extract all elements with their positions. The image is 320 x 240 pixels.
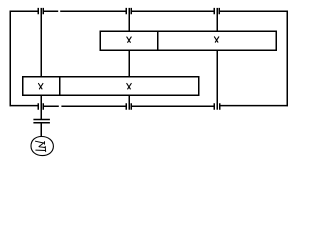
coupling bars on motor shaft — [33, 120, 50, 123]
wire: bottom shaft line segment 5 (G6 to right frame) — [221, 105, 289, 107]
shaft B stub top line to upper block — [128, 8, 130, 31]
gear block B2 (lower sliding block) — [23, 77, 199, 96]
wire: top shaft line segment 5 (G3 to right frame) — [220, 10, 288, 12]
gear pair G1 ticks on top line at shaft A — [38, 8, 43, 14]
engagement mark x4 in lower block at shaft B — [127, 84, 131, 89]
shaft B stub between blocks — [128, 50, 130, 77]
motor M1 letter M (italic M rotated 90 deg, drawn as strokes) — [35, 141, 45, 151]
engagement mark x1 in upper block at shaft B — [127, 37, 131, 42]
engagement mark x2 in upper block at shaft C — [214, 37, 218, 42]
wire: top shaft line segment 2 (to small gap) — [44, 10, 58, 12]
engagement mark x3 in lower block at shaft A — [39, 84, 43, 89]
wire: bottom shaft line segment 2 (to small gap) — [44, 105, 59, 107]
gear block B1 (upper sliding block) — [100, 31, 276, 50]
wire: right frame return line — [286, 11, 288, 107]
gear pair G4 ticks on bottom line at shaft A — [38, 103, 43, 109]
gear block B1 divider — [157, 31, 159, 50]
shaft C stub top line to upper block — [216, 8, 218, 31]
shaft A upper run (top line to lower block) — [40, 8, 42, 77]
wire: top shaft line segment 3 (gap to gear pair G2) — [60, 10, 125, 12]
wire: bottom shaft line segment 4 (G5 to G6) — [132, 105, 214, 107]
gear pair G3 ticks on top line at shaft C — [214, 8, 219, 14]
gear pair G6 ticks on bottom line at shaft C — [214, 103, 220, 109]
gear pair G2 ticks on top line at shaft B — [126, 8, 131, 14]
shaft A run through bottom line to coupling — [40, 95, 42, 119]
gear pair G5 ticks on bottom line at shaft B — [126, 103, 131, 109]
wire: bottom shaft line segment 3 (gap to gear pair G5) — [61, 105, 125, 107]
wire: top shaft line segment 4 (G2 to G3) — [132, 10, 214, 12]
shaft B stub below lower block through bottom line — [128, 95, 130, 110]
wire: top shaft line segment 1 — [10, 10, 38, 12]
wire: left frame return line — [9, 11, 11, 107]
gear block B2 divider — [59, 77, 61, 96]
shaft A stub coupling to motor — [40, 123, 42, 137]
wire: bottom shaft line segment 1 — [10, 105, 38, 107]
shaft C long run below upper block through bottom line — [216, 50, 218, 109]
motor M1 circle — [31, 137, 53, 156]
